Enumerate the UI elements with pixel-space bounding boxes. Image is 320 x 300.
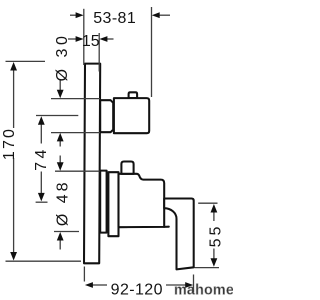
svg-text:Ø 48: Ø 48 — [54, 179, 71, 226]
dim 170 top tick — [6, 60, 46, 62]
dim 170 line — [13, 71, 15, 129]
svg-text:Ø 30: Ø 30 — [54, 33, 71, 82]
dim Ø48 bottom extension line — [54, 231, 79, 233]
upper sleeve — [100, 100, 113, 132]
body bottom hidden stub — [164, 226, 169, 228]
dim 55 line — [213, 212, 215, 221]
dim 92-120 left extension line — [83, 267, 85, 282]
dim 15 right extension line — [98, 33, 100, 72]
dim Ø30 bottom arrow — [59, 140, 61, 147]
lower flange ring — [100, 171, 106, 233]
dim 74 bottom tick — [36, 201, 48, 203]
lower sleeve — [108, 172, 118, 236]
dim 170 bottom tick — [6, 260, 82, 262]
dim 74 top extension line — [36, 115, 78, 117]
lever handle — [164, 199, 194, 270]
dim Ø30 bottom extension line — [51, 132, 100, 134]
dim 92-120 right arrow — [166, 284, 186, 286]
watermark — [174, 283, 234, 299]
dim 53-81 right arrow — [159, 14, 170, 16]
svg-text:74: 74 — [33, 146, 50, 171]
dim Ø48 top extension line — [55, 170, 100, 172]
dim 15 left arrow — [68, 38, 76, 40]
dim 92-120 left arrow — [93, 284, 108, 286]
dim 53-81 left extension line — [83, 9, 85, 65]
upper thermostat knob — [114, 98, 149, 133]
dim Ø48 bottom arrow — [59, 240, 61, 250]
svg-text:92-120: 92-120 — [111, 282, 163, 299]
dim 15 right arrow — [107, 38, 114, 40]
knob top tab — [129, 92, 138, 98]
dim 55 bottom extension segment — [195, 267, 220, 269]
wall plate (escutcheon, side view) — [84, 64, 100, 264]
dim Ø48 top arrow — [59, 156, 61, 164]
svg-text:170: 170 — [1, 127, 18, 160]
dim Ø30 top arrow — [59, 80, 61, 92]
dim 53-81 right extension line — [151, 7, 153, 97]
dim 55 top extension segment — [198, 202, 217, 204]
dim Ø30 top extension line — [51, 98, 100, 100]
svg-text:53-81: 53-81 — [93, 10, 136, 27]
dim 92-120 right extension line — [193, 275, 195, 293]
dim 53-81 left arrow — [70, 14, 77, 16]
dim 74 line — [40, 124, 42, 144]
svg-text:15: 15 — [82, 33, 100, 50]
button on body — [121, 162, 133, 174]
svg-text:55: 55 — [208, 224, 225, 248]
lower valve body — [119, 174, 165, 227]
